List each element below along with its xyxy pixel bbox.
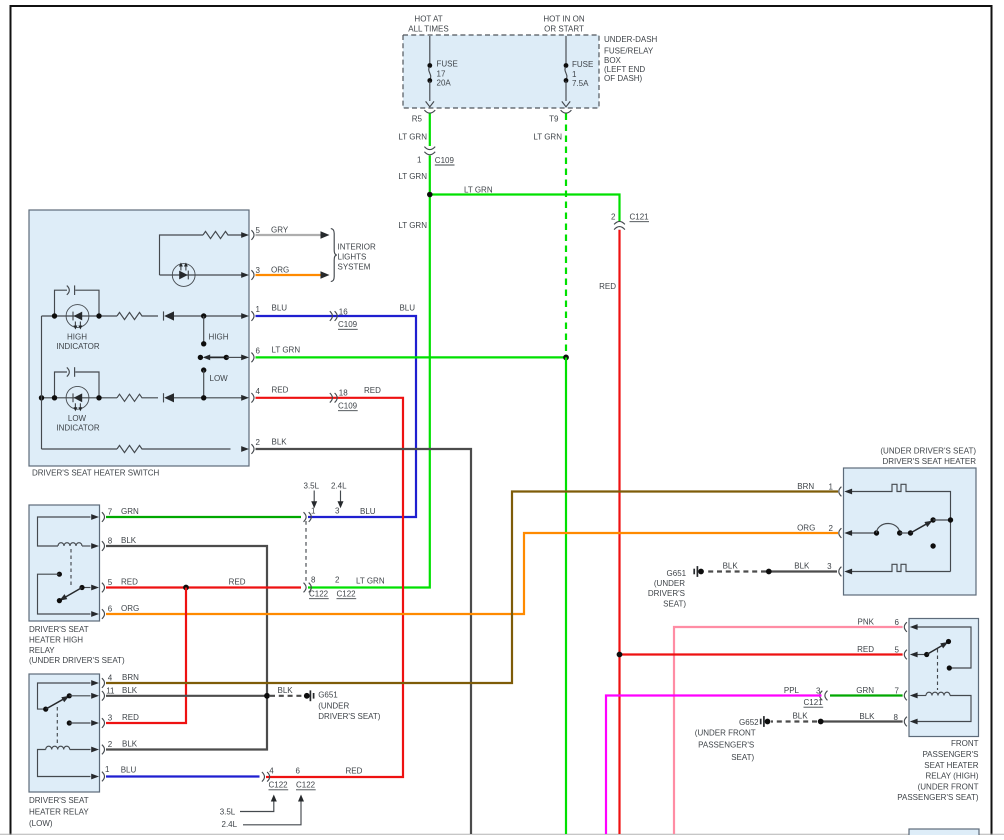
junction [427,192,433,198]
svg-text:LT GRN: LT GRN [398,133,427,142]
connector C109 pin 1 (inline) [424,147,435,150]
driver's seat heater box (right) [844,468,977,595]
svg-text:5: 5 [108,578,113,587]
svg-text:BLU: BLU [121,766,137,775]
svg-text:RELAY: RELAY [29,646,55,655]
svg-text:LIGHTS: LIGHTS [338,253,367,262]
wire LT GRN down to bottom [565,357,567,834]
svg-text:INDICATOR: INDICATOR [56,342,99,351]
svg-text:SEAT): SEAT) [731,753,754,762]
thermostat (pin2 row) [852,532,877,534]
svg-text:2: 2 [108,740,113,749]
svg-text:C109: C109 [338,320,358,329]
svg-text:R5: R5 [412,115,423,124]
svg-text:RED: RED [599,282,616,291]
heater pin arrows/arcs [844,489,852,495]
svg-text:DRIVER'S SEAT HEATER SWITCH: DRIVER'S SEAT HEATER SWITCH [32,468,160,477]
svg-text:4: 4 [108,674,113,683]
resistor (pin1 row) [117,312,158,319]
low contact branch [201,367,206,372]
svg-text:RED: RED [229,578,246,587]
svg-text:G651: G651 [667,569,687,578]
svg-text:HIGH: HIGH [67,332,87,341]
svg-text:C109: C109 [338,402,358,411]
svg-text:2.4L: 2.4L [222,820,238,829]
svg-text:ALL TIMES: ALL TIMES [408,24,448,33]
svg-text:SEAT HEATER: SEAT HEATER [924,761,978,770]
svg-text:SYSTEM: SYSTEM [338,263,371,272]
LED indicator (pin3) [172,263,195,287]
svg-text:BLK: BLK [121,536,137,545]
svg-text:1: 1 [256,305,261,314]
diode (pin4 row) [163,393,165,402]
svg-text:LT GRN: LT GRN [398,221,427,230]
wire internal pin3 row [160,274,242,276]
svg-text:BLK: BLK [794,562,810,571]
connector C121 pin 3 [825,691,828,701]
svg-text:LOW: LOW [68,414,87,423]
svg-text:7: 7 [895,687,900,696]
connector C122 pins 8/2 [304,583,307,593]
under-dash fuse/relay box [403,35,599,108]
relay switch (passenger) [917,627,971,668]
svg-text:PASSENGER'S: PASSENGER'S [922,750,978,759]
svg-text:2: 2 [335,576,340,585]
capacitor branch (high) [55,290,68,316]
ground G651 (under driver's seat) [304,693,310,699]
wire pin1 row [42,315,118,317]
svg-text:BLK: BLK [792,712,808,721]
svg-text:DRIVER'S SEAT): DRIVER'S SEAT) [318,712,381,721]
connector T9 (box exit) [561,110,572,113]
relay link dashed [56,707,58,745]
svg-text:C109: C109 [435,156,455,165]
svg-text:BLK: BLK [859,712,875,721]
relay link dashed [70,549,72,585]
connector C122 pins 1/3 (3.5L/2.4L) [304,512,307,522]
svg-text:OR START: OR START [544,24,584,33]
svg-text:6: 6 [108,605,113,614]
svg-text:RED: RED [346,767,363,776]
low relay pin arrows/arcs [91,680,99,686]
svg-text:BLK: BLK [122,740,138,749]
LED low indicator [66,386,89,411]
svg-text:1: 1 [417,156,422,165]
passenger relay pin arrows/arcs [910,624,918,630]
svg-text:DRIVER'S SEAT: DRIVER'S SEAT [29,796,89,805]
svg-text:7.5A: 7.5A [572,79,589,88]
svg-text:GRN: GRN [121,507,139,516]
svg-text:(UNDER FRONT: (UNDER FRONT [918,782,979,791]
svg-text:ORG: ORG [271,266,289,275]
svg-text:6: 6 [256,347,261,356]
partial box bottom right [909,829,979,839]
svg-text:C122: C122 [269,781,289,790]
svg-text:HOT IN ON: HOT IN ON [543,15,584,24]
svg-text:HOT AT: HOT AT [414,15,442,24]
svg-text:2: 2 [256,438,261,447]
svg-text:HEATER HIGH: HEATER HIGH [29,636,83,645]
connector C121 pin 2 (inline) [614,221,625,224]
svg-text:3: 3 [816,687,821,696]
svg-text:16: 16 [339,308,348,317]
svg-text:UNDER-DASH: UNDER-DASH [604,35,658,44]
wire pin2 row with resistor [42,448,118,450]
svg-text:FUSE: FUSE [572,60,593,69]
svg-text:3.5L: 3.5L [304,482,320,491]
svg-text:FUSE/RELAY: FUSE/RELAY [604,47,654,56]
svg-text:PASSENGER'S SEAT): PASSENGER'S SEAT) [897,793,979,802]
svg-text:17: 17 [437,70,446,79]
connector R5 (box exit) [424,110,435,113]
svg-text:BRN: BRN [797,482,814,491]
svg-text:6: 6 [296,767,301,776]
wire pin4 row [42,397,118,399]
page border frame [10,5,12,835]
switch arm (pin6 row) [198,355,203,360]
svg-text:C121: C121 [630,213,650,222]
wire RED down to low relay pin 3 [106,588,186,724]
relay coil (passenger) [917,695,926,697]
svg-text:8: 8 [108,537,113,546]
svg-text:PPL: PPL [784,686,800,695]
wire LT GRN from R5 [429,114,431,147]
driver's seat heater switch box [29,210,249,466]
dashed connector link [305,521,307,583]
svg-text:C122: C122 [309,590,329,599]
heater element pin3 row [852,571,890,573]
svg-text:RED: RED [272,386,289,395]
left bus vertical [41,316,43,449]
svg-text:1: 1 [829,483,834,492]
svg-text:RELAY (HIGH): RELAY (HIGH) [925,771,978,780]
svg-text:C122: C122 [296,781,316,790]
svg-text:FUSE: FUSE [437,59,458,68]
svg-text:SEAT): SEAT) [663,600,686,609]
svg-text:(UNDER: (UNDER [318,701,349,710]
svg-text:PASSENGER'S: PASSENGER'S [698,741,754,750]
svg-text:FRONT: FRONT [951,739,979,748]
wire LT GRN horizontal to C121 [430,195,620,222]
svg-text:5: 5 [256,226,261,235]
resistor (pin5 row) [203,231,242,238]
svg-text:2.4L: 2.4L [331,482,347,491]
svg-text:INTERIOR: INTERIOR [338,242,376,251]
high contact branch [203,316,205,344]
wire LT GRN below C109 [308,156,430,588]
svg-text:11: 11 [106,687,115,696]
svg-text:4: 4 [256,387,261,396]
svg-text:ORG: ORG [121,604,139,613]
svg-text:LT GRN: LT GRN [356,577,385,586]
svg-text:LT GRN: LT GRN [464,185,493,194]
svg-text:6: 6 [895,618,900,627]
svg-text:RED: RED [364,386,381,395]
svg-text:4: 4 [269,767,274,776]
svg-text:2: 2 [611,213,616,222]
relay switch (low) [38,683,91,709]
svg-text:(UNDER DRIVER'S SEAT): (UNDER DRIVER'S SEAT) [29,656,125,665]
svg-text:LOW: LOW [210,374,229,383]
front passenger's seat heater relay (high) box [909,619,979,737]
svg-text:(UNDER FRONT: (UNDER FRONT [695,729,756,738]
svg-text:2: 2 [829,524,834,533]
svg-text:DRIVER'S: DRIVER'S [648,589,685,598]
interior lights system brace [331,229,337,282]
fuse 17 20A [426,36,458,107]
svg-text:PNK: PNK [858,618,875,627]
driver's seat heater relay (low) box [29,674,100,792]
svg-text:G651: G651 [318,691,338,700]
capacitor branch (low) [55,372,68,398]
svg-text:BRN: BRN [122,673,139,682]
ground G652 [765,719,771,725]
junction with dashed feed [563,355,569,361]
svg-text:GRY: GRY [271,226,289,235]
svg-text:GRN: GRN [856,686,874,695]
svg-text:(LEFT END: (LEFT END [604,65,645,74]
svg-text:20A: 20A [437,78,452,87]
svg-text:3: 3 [256,266,261,275]
wire BLK dashed to G651 [270,695,304,697]
connector C122 pins 4/6 [262,772,265,782]
svg-text:LT GRN: LT GRN [272,346,301,355]
svg-text:BLK: BLK [122,686,138,695]
svg-text:3: 3 [108,714,113,723]
wire RED from C121 down [618,230,620,834]
svg-text:RED: RED [122,713,139,722]
svg-text:BOX: BOX [604,56,622,65]
svg-text:(UNDER DRIVER'S SEAT): (UNDER DRIVER'S SEAT) [880,447,976,456]
svg-text:1: 1 [105,765,110,774]
svg-text:T9: T9 [549,115,559,124]
relay link dashed [937,649,939,690]
svg-text:8: 8 [311,576,316,585]
relay coil (high) [38,517,91,546]
svg-text:BLK: BLK [278,686,294,695]
ground G651 (right) [698,569,704,575]
fuse 1 7.5A [562,36,594,107]
svg-text:1: 1 [311,507,316,516]
svg-text:DRIVER'S SEAT HEATER: DRIVER'S SEAT HEATER [882,457,976,466]
svg-text:3.5L: 3.5L [220,807,236,816]
svg-text:RED: RED [121,578,138,587]
svg-text:3: 3 [335,507,340,516]
svg-text:BLU: BLU [272,304,288,313]
svg-text:HIGH: HIGH [209,332,229,341]
svg-text:BLU: BLU [399,304,415,313]
svg-text:RED: RED [857,645,874,654]
driver's seat heater high relay box [29,505,100,621]
svg-text:G652: G652 [739,718,759,727]
diode (pin1 row) [163,311,165,320]
LED high indicator [66,305,89,330]
svg-text:C122: C122 [337,590,357,599]
svg-text:BLK: BLK [723,562,739,571]
wire internal pin5 row [160,235,204,275]
svg-text:(LOW): (LOW) [29,819,53,828]
relay switch (high) [82,587,91,589]
switch pin arcs [251,230,254,240]
svg-text:7: 7 [108,508,113,517]
svg-text:ORG: ORG [797,524,815,533]
svg-text:C121: C121 [804,698,824,707]
svg-text:DRIVER'S SEAT: DRIVER'S SEAT [29,625,89,634]
svg-text:OF DASH): OF DASH) [604,74,643,83]
svg-text:3: 3 [827,562,832,571]
relay coil (low) [70,749,91,751]
svg-text:HEATER RELAY: HEATER RELAY [29,808,89,817]
svg-text:LT GRN: LT GRN [398,172,427,181]
svg-text:BLK: BLK [272,438,288,447]
resistor (pin4 row) [117,394,158,401]
heater element pin1 row [852,491,890,493]
svg-text:18: 18 [339,389,348,398]
wire LT GRN dashed from T9 [565,114,567,358]
svg-text:BLU: BLU [360,507,376,516]
wire PPL down to bottom [606,696,822,835]
svg-text:(UNDER: (UNDER [654,579,685,588]
svg-text:INDICATOR: INDICATOR [56,424,99,433]
svg-text:5: 5 [895,646,900,655]
high relay pin arrows/arcs [91,514,99,520]
svg-text:LT GRN: LT GRN [533,133,562,142]
